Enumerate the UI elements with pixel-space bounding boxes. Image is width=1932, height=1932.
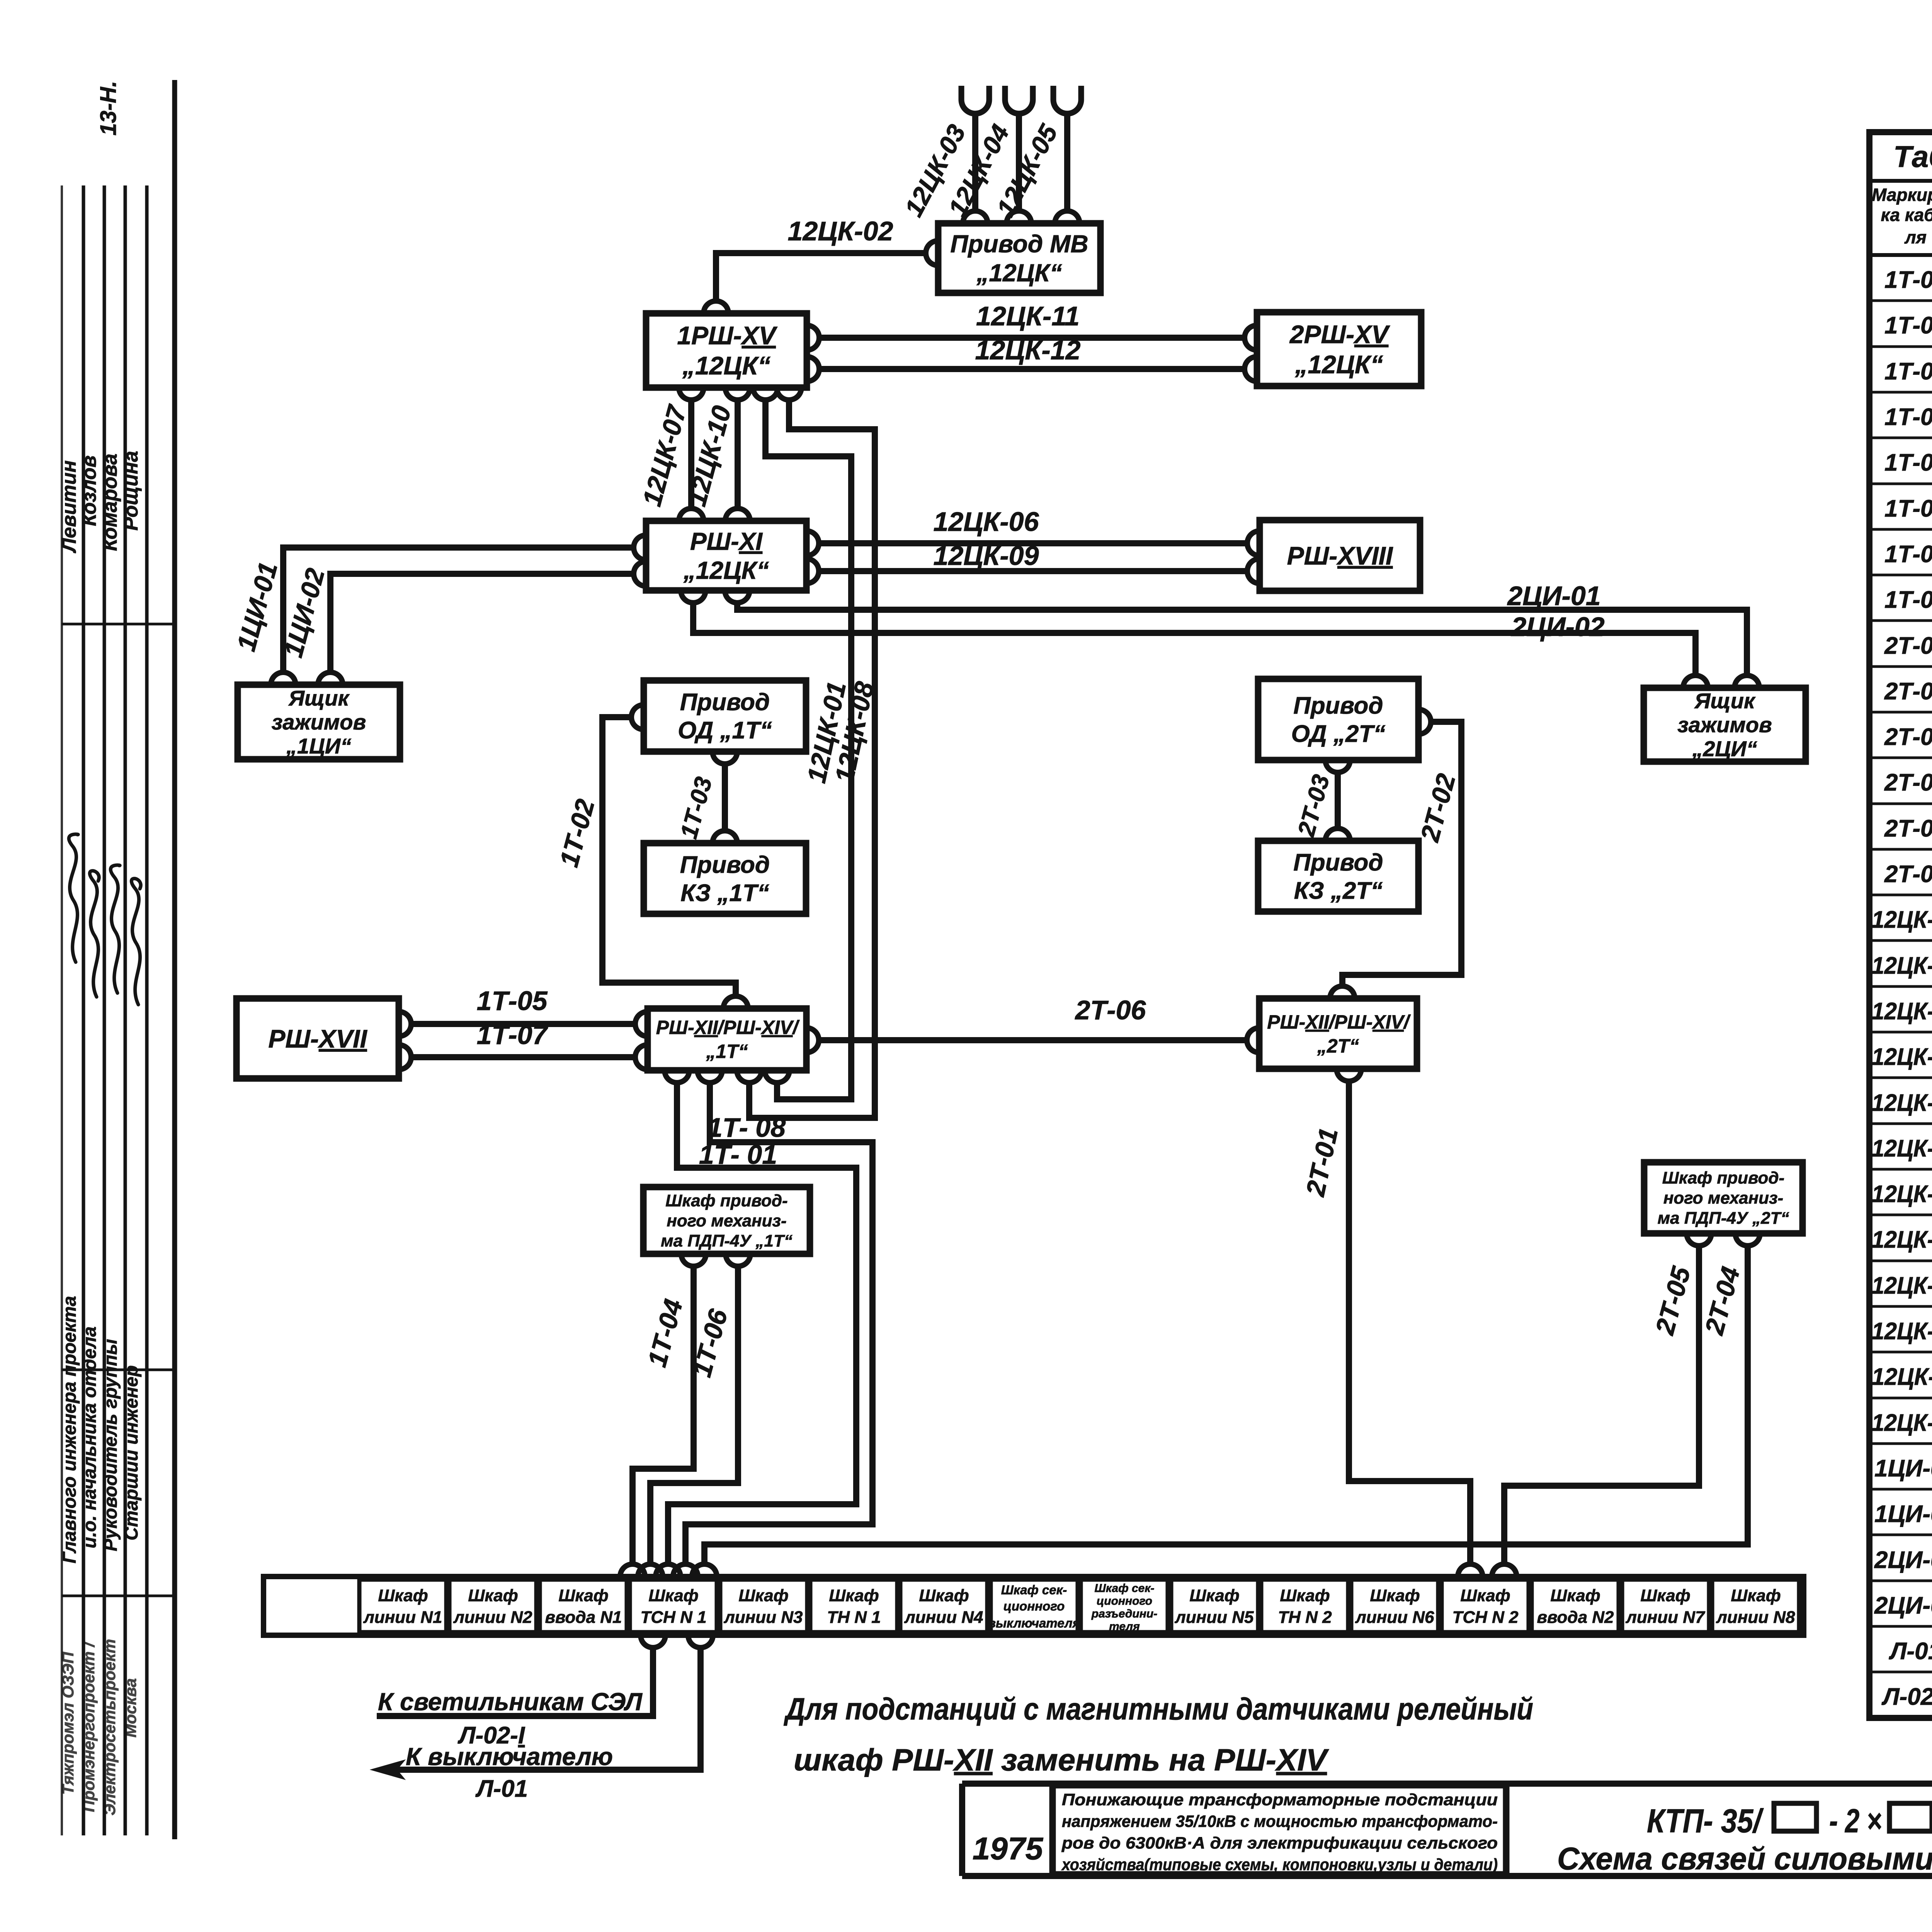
cabinet cell: Шкаф ввода N2: [1532, 1580, 1619, 1632]
cabinet cell: Шкаф линии N8: [1712, 1580, 1799, 1632]
svg-text:„12ЦК“: „12ЦК“: [683, 556, 769, 584]
bump ящик 1ЦИ top-1: [271, 672, 296, 685]
svg-text:2ЦИ-01: 2ЦИ-01: [1874, 1547, 1932, 1573]
svg-text:„12ЦК“: „12ЦК“: [682, 351, 770, 380]
stamp column: organisation stamp (rotated, blurred in scan): [59, 1639, 139, 1815]
cabinet cell: Шкаф линии N6: [1351, 1580, 1438, 1632]
svg-text:12ЦК-02: 12ЦК-02: [1872, 952, 1932, 979]
bump РШ-XI bottom-1: [681, 590, 706, 603]
cable table row 2Т-01: [1884, 633, 1932, 659]
label 1Т-02: [554, 796, 600, 870]
bump Привод ОД 2Т bottom: [1325, 760, 1350, 772]
label 12ЦК-01: [802, 679, 852, 786]
label 2Т-04: [1699, 1264, 1746, 1338]
cabinet cell: Шкаф ТН N 2: [1261, 1580, 1348, 1632]
label 1Т-01: [699, 1139, 777, 1170]
svg-text:КЗ „2Т“: КЗ „2Т“: [1294, 878, 1383, 904]
svg-text:ОД „1Т“: ОД „1Т“: [678, 717, 772, 744]
svg-text:Главного инженера проекта: Главного инженера проекта: [60, 1296, 80, 1563]
svg-text:„2ЦИ“: „2ЦИ“: [1692, 736, 1757, 761]
svg-text:разъедини-: разъедини-: [1091, 1607, 1157, 1620]
wire 12ЦК-06 (РШ-XI to РШ-XVIII): [819, 540, 1247, 546]
svg-text:Для подстанций с магнитными: Для подстанций с магнитными датчиками ре…: [784, 1692, 1533, 1726]
cable table row 2ЦИ-01: [1874, 1547, 1932, 1573]
svg-text:линии N1: линии N1: [363, 1608, 442, 1627]
cable table row 12ЦК-10: [1872, 1318, 1932, 1345]
cabinet cell: Шкаф линии N3: [720, 1580, 807, 1632]
bump Привод МВ top-2: [1007, 211, 1031, 223]
wire 2ЦИ-01 (РШ-XI to ящик зажимов 2ЦИ): [737, 603, 1747, 675]
cabinet row outer bar: [264, 1577, 1804, 1635]
svg-text:Козлов: Козлов: [78, 455, 100, 526]
wire cable stub lead 12ЦК-04: [1016, 116, 1022, 211]
cabinet cell: Шкаф линии N2: [449, 1580, 536, 1632]
svg-text:12ЦК-12: 12ЦК-12: [975, 335, 1080, 365]
label 12ЦК-11: [976, 301, 1080, 331]
bump РШ-XII 2Т left: [1247, 1028, 1259, 1053]
bump РШ-XVIII left-2: [1247, 559, 1260, 583]
svg-text:Шкаф: Шкаф: [558, 1586, 608, 1605]
cable table row 12ЦК-09: [1872, 1272, 1932, 1299]
bump ящик 2ЦИ top-1: [1683, 675, 1708, 688]
svg-text:2ЦИ-02: 2ЦИ-02: [1874, 1592, 1932, 1619]
wire 1Т-08 (РШ-XII „1Т“ to шкаф ТСН N1): [685, 1083, 872, 1564]
box ящик зажимов „1ЦИ“: [238, 685, 400, 759]
svg-text:1Т- 01: 1Т- 01: [699, 1139, 777, 1170]
svg-text:12ЦК-05: 12ЦК-05: [1872, 1090, 1932, 1116]
bump 1РШ-XV right-1: [807, 325, 819, 350]
cable table row 1Т-06: [1884, 495, 1932, 522]
cable table row 12ЦК-02: [1872, 952, 1932, 979]
svg-text:зажимов: зажимов: [272, 710, 366, 734]
svg-text:Руководитель группы: Руководитель группы: [100, 1339, 121, 1551]
wire Л-02-I (шкаф ТСН N1 to светильники СЭЛ): [377, 1648, 653, 1716]
bump шкаф ТСН N1 top-3: [656, 1564, 680, 1577]
svg-text:РШ-ХVII: РШ-ХVII: [268, 1024, 367, 1053]
stamp column horizontal dividers: [62, 624, 175, 1596]
svg-text:ввода N1: ввода N1: [545, 1608, 622, 1627]
bump РШ-XI left-2: [634, 561, 646, 586]
svg-text:РШ-ХII/РШ-ХIV/: РШ-ХII/РШ-ХIV/: [656, 1017, 800, 1038]
svg-text:Понижающие трансформаторные: Понижающие трансформаторные подстанции: [1062, 1791, 1498, 1809]
svg-text:РШ-ХVIII: РШ-ХVIII: [1287, 541, 1393, 570]
svg-text:Шкаф привод-: Шкаф привод-: [1662, 1168, 1784, 1187]
box Привод КЗ „2Т“: [1258, 841, 1418, 912]
box РШ-XVII: [236, 998, 399, 1078]
label Л-02-I: [457, 1722, 526, 1749]
label Л-01: [475, 1776, 528, 1802]
svg-text:Шкаф: Шкаф: [648, 1586, 698, 1605]
svg-text:1Т-05: 1Т-05: [477, 986, 548, 1016]
bump РШ-XVII right-1: [399, 1012, 411, 1036]
label 2Т-01: [1300, 1125, 1344, 1199]
cable table row 1Т-03: [1884, 358, 1932, 385]
note line 2: шкаф РШ-XII заменить на РШ-XIV: [794, 1743, 1329, 1777]
box РШ-XII(РШ-XIV) „2Т“: [1259, 998, 1417, 1069]
svg-text:ного механиз-: ного механиз-: [667, 1211, 786, 1230]
label 12ЦК-07: [637, 401, 692, 509]
box шкаф приводного механизма ПДП-4У „1Т“: [643, 1187, 810, 1254]
svg-text:2Т-05: 2Т-05: [1884, 815, 1932, 842]
svg-text:Привод: Привод: [680, 689, 770, 716]
cable table row 12ЦК-11: [1872, 1364, 1932, 1390]
label 1ЦИ-01: [231, 559, 283, 654]
bump Привод КЗ 2Т top: [1325, 828, 1350, 841]
svg-text:ка кабе-: ка кабе-: [1881, 205, 1932, 225]
svg-text:Левитин: Левитин: [58, 460, 80, 553]
label 1Т-05: [477, 986, 548, 1016]
svg-text:линии N3: линии N3: [723, 1608, 803, 1627]
svg-text:хозяйства(типовые схемы, компо: хозяйства(типовые схемы, компоновки,узлы…: [1061, 1855, 1498, 1874]
cable termination symbol at top of stub x=2637: [1005, 86, 1033, 114]
svg-text:линии N4: линии N4: [904, 1608, 983, 1627]
svg-text:ТН N 2: ТН N 2: [1278, 1608, 1332, 1627]
wire 2Т-06 (РШ-XII „1Т“ to РШ-XII „2Т“): [819, 1037, 1247, 1043]
svg-text:Таблица связей, выполненных: Таблица связей, выполненных силовыми каб…: [1893, 139, 1932, 173]
bump 1РШ-XV bottom-1: [679, 388, 704, 400]
label 2Т-06: [1075, 995, 1146, 1025]
svg-text:Шкаф: Шкаф: [1280, 1586, 1330, 1605]
svg-text:1РШ-ХV: 1РШ-ХV: [677, 321, 777, 350]
bump Привод КЗ 1Т top: [713, 831, 737, 843]
svg-text:ТСН N 1: ТСН N 1: [640, 1608, 706, 1627]
bump 1РШ-XV bottom-2: [725, 388, 750, 400]
label 1Т-06: [687, 1306, 733, 1380]
cable table row 12ЦК-07: [1872, 1181, 1932, 1207]
svg-text:„1ЦИ“: „1ЦИ“: [286, 734, 351, 758]
cabinet cell: Шкаф ТН N 1: [810, 1580, 897, 1632]
svg-text:Шкаф: Шкаф: [1189, 1586, 1239, 1605]
wire cable stub lead 12ЦК-05: [1064, 116, 1070, 211]
cable table row 2ЦИ-02: [1874, 1592, 1932, 1619]
title block: year cell 1975: [973, 1831, 1044, 1866]
bump РШ-XI left-1: [634, 535, 646, 560]
cable table row Л-01: [1889, 1638, 1932, 1665]
svg-text:К светильникам СЭЛ: К светильникам СЭЛ: [378, 1688, 643, 1716]
wire 12ЦК-08 (1РШ-XV to РШ-XII „1Т“): [749, 400, 875, 1118]
cabinet cell: Шкаф ТСН N 2: [1442, 1580, 1529, 1632]
bump Привод ОД 2Т right: [1418, 709, 1431, 734]
label 1ЦИ-02: [279, 565, 330, 660]
label 12ЦК-09: [933, 541, 1039, 571]
svg-text:2Т-04: 2Т-04: [1884, 769, 1932, 796]
bump шкаф ТСН N1 bottom-1: [641, 1635, 665, 1648]
svg-text:1Т- 08: 1Т- 08: [707, 1112, 786, 1143]
svg-text:шкаф РШ-ХII заменить на: шкаф РШ-ХII заменить на РШ-ХIV: [794, 1743, 1329, 1777]
cable table row 1ЦИ-01: [1874, 1455, 1932, 1482]
cable table row 12ЦК-03: [1872, 998, 1932, 1025]
wire 12ЦК-12 (1РШ-XV to 2РШ-XV): [820, 366, 1244, 372]
cable table row 12ЦК-12: [1872, 1410, 1932, 1436]
wire 2Т-02 (Привод ОД 2Т to РШ-XII „2Т“): [1342, 722, 1461, 986]
svg-text:Шкаф: Шкаф: [1640, 1586, 1690, 1605]
bump РШ-XII 2Т bottom: [1337, 1069, 1361, 1081]
svg-text:12ЦК-10: 12ЦК-10: [1872, 1318, 1932, 1345]
svg-text:Промэнергопроект /: Промэнергопроект /: [80, 1641, 98, 1812]
svg-text:1ЦИ-01: 1ЦИ-01: [1874, 1455, 1932, 1482]
wire Л-01 (шкаф ТСН N1 to выключатель): [383, 1648, 701, 1770]
svg-text:„1Т“: „1Т“: [706, 1041, 748, 1062]
svg-text:Шкаф сек-: Шкаф сек-: [1001, 1583, 1067, 1597]
box РШ-XI „12ЦК“: [646, 521, 806, 590]
label 2Т-02: [1415, 770, 1461, 845]
bump РШ-XVII right-2: [399, 1045, 411, 1070]
bump Привод ОД 1Т left: [631, 705, 644, 730]
svg-text:2Т-06: 2Т-06: [1884, 861, 1932, 888]
svg-text:линии N5: линии N5: [1174, 1608, 1254, 1627]
svg-text:выключателя: выключателя: [988, 1616, 1080, 1630]
svg-text:КЗ „1Т“: КЗ „1Т“: [680, 880, 769, 906]
note line 1: Для подстанций с магнитными датчиками релейный: [784, 1692, 1533, 1726]
svg-text:1975: 1975: [973, 1831, 1044, 1866]
svg-text:Шкаф: Шкаф: [919, 1586, 969, 1605]
wire 2Т-05 (шкаф ПДП-4У 2Т to шкаф ТСН N2): [1504, 1246, 1699, 1564]
svg-text:2ЦИ-01: 2ЦИ-01: [1507, 581, 1600, 611]
cable table row 12ЦК-08: [1872, 1226, 1932, 1253]
wire 2Т-04 (шкаф ПДП-4У 2Т to шкаф ТСН N1): [704, 1246, 1748, 1564]
bump ПДП-4У 1Т bottom-1: [681, 1254, 706, 1266]
label 2Т-05: [1650, 1263, 1696, 1338]
svg-text:2ЦИ-02: 2ЦИ-02: [1510, 612, 1605, 642]
label 12ЦК-05: [991, 119, 1063, 221]
svg-text:12ЦК-06: 12ЦК-06: [933, 507, 1039, 537]
bump РШ-XII 1Т top: [723, 996, 748, 1009]
bump шкаф ТСН N2 top-1: [1458, 1564, 1483, 1577]
svg-text:12ЦК-08: 12ЦК-08: [1872, 1226, 1932, 1253]
bump ПДП-4У 2Т bottom-1: [1687, 1233, 1711, 1246]
svg-text:КТП- 35/: КТП- 35/: [1647, 1803, 1764, 1840]
svg-text:Схема связей силовыми кабел: Схема связей силовыми кабелями: [1557, 1841, 1932, 1876]
label 2Т-03: [1293, 772, 1335, 840]
box Привод ОД „2Т“: [1258, 679, 1418, 760]
cable table row 1Т-02: [1884, 312, 1932, 339]
label 1Т-04: [642, 1296, 688, 1370]
svg-text:ввода N2: ввода N2: [1537, 1608, 1614, 1627]
svg-text:12ЦК-04: 12ЦК-04: [1872, 1044, 1932, 1070]
bump РШ-XI right-2: [806, 559, 819, 583]
svg-text:ТСН N 2: ТСН N 2: [1452, 1608, 1519, 1627]
label 12ЦК-12: [975, 335, 1080, 365]
wire 12ЦК-11 (1РШ-XV to 2РШ-XV): [820, 335, 1244, 341]
svg-text:Тяжпромэл ОЗЭП: Тяжпромэл ОЗЭП: [59, 1651, 77, 1795]
bump 2РШ-XV left-1: [1245, 325, 1257, 350]
bump шкаф ТСН N1 top-1: [620, 1564, 645, 1577]
cabinet cell: Шкаф линии N4: [900, 1580, 987, 1632]
wire 1ЦИ-01 (РШ-XI to ящик зажимов 1ЦИ): [283, 548, 633, 672]
stamp column: signatures (rotated script squiggles): [69, 834, 141, 1005]
label 12ЦК-10: [682, 403, 737, 509]
cable table row Л-02-I: [1881, 1684, 1932, 1710]
svg-text:Комарова: Комарова: [99, 454, 121, 551]
title block: drawing name: [1557, 1841, 1932, 1876]
cable table row 1Т-04: [1884, 404, 1932, 430]
wire 1Т-03 (Привод ОД 1Т to Привод КЗ 1Т): [722, 764, 728, 830]
svg-text:1Т-05: 1Т-05: [1884, 449, 1932, 476]
svg-text:Ящик: Ящик: [288, 686, 350, 710]
svg-text:2Т-01: 2Т-01: [1884, 633, 1932, 659]
cabinet cell: Шкаф линии N7: [1622, 1580, 1709, 1632]
bump Привод МВ left: [926, 241, 938, 265]
cable table row 12ЦК-01: [1872, 906, 1932, 933]
svg-text:1Т-02: 1Т-02: [1884, 312, 1932, 339]
bump РШ-XII 1Т right: [806, 1028, 819, 1053]
box РШ-XII(РШ-XIV) „1Т“: [648, 1009, 806, 1070]
bump РШ-XII 1Т bottom-4: [765, 1070, 789, 1083]
bump РШ-XII 1Т left-1: [635, 1012, 648, 1036]
title block: outer frame and cell borders: [962, 1784, 1932, 1876]
cable table row 2Т-02: [1884, 678, 1932, 705]
bump 1РШ-XV right-2: [807, 357, 819, 381]
svg-text:- 2 ×: - 2 ×: [1829, 1803, 1882, 1840]
svg-text:Шкаф сек-: Шкаф сек-: [1094, 1582, 1154, 1595]
svg-text:„12ЦК“: „12ЦК“: [1294, 350, 1383, 379]
svg-text:ля: ля: [1904, 227, 1927, 247]
bump Привод МВ top-3: [1055, 211, 1080, 223]
bump шкаф ТСН N1 top-5: [692, 1564, 717, 1577]
svg-text:12ЦК-07: 12ЦК-07: [1872, 1181, 1932, 1207]
svg-text:Шкаф: Шкаф: [1460, 1586, 1510, 1605]
svg-text:12ЦК-09: 12ЦК-09: [933, 541, 1039, 571]
svg-text:12ЦК-11: 12ЦК-11: [1872, 1364, 1932, 1390]
svg-text:Шкаф: Шкаф: [378, 1586, 428, 1605]
svg-text:Шкаф: Шкаф: [1731, 1586, 1781, 1605]
svg-text:РШ-ХII/РШ-ХIV/: РШ-ХII/РШ-ХIV/: [1267, 1011, 1411, 1033]
svg-text:1Т-03: 1Т-03: [1884, 358, 1932, 385]
svg-text:12ЦК-01: 12ЦК-01: [1872, 906, 1932, 933]
cable table row 1ЦИ-02: [1874, 1501, 1932, 1527]
svg-text:2Т-06: 2Т-06: [1075, 995, 1146, 1025]
svg-text:Шкаф: Шкаф: [1550, 1586, 1600, 1605]
svg-text:Шкаф: Шкаф: [829, 1586, 879, 1605]
label 12ЦК-08: [830, 679, 880, 785]
sheet frame: left stamp column verticals: [62, 80, 175, 1839]
cable table row 1Т-01: [1884, 267, 1932, 293]
svg-text:1Т-01: 1Т-01: [1884, 267, 1932, 293]
cabinet cell: Шкаф линии N5: [1171, 1580, 1258, 1632]
svg-text:теля: теля: [1109, 1620, 1140, 1633]
svg-text:Электросетьпроект: Электросетьпроект: [100, 1639, 119, 1815]
bump 1РШ-XV top: [704, 301, 728, 313]
svg-text:К выключателю: К выключателю: [406, 1743, 613, 1770]
bump Привод ОД 1Т bottom: [713, 752, 737, 764]
svg-text:Москва: Москва: [121, 1678, 139, 1737]
title block: drawing designation КТП-35: [1647, 1803, 1932, 1840]
svg-text:2Т-02: 2Т-02: [1884, 678, 1932, 705]
box шкаф приводного механизма ПДП-4У „2Т“: [1644, 1162, 1803, 1233]
svg-text:„12ЦК“: „12ЦК“: [976, 259, 1062, 287]
bump РШ-XI right-1: [806, 531, 819, 556]
cable table: title: [1893, 139, 1932, 173]
wire 12ЦК-09 (РШ-XI to РШ-XVIII): [819, 568, 1247, 574]
wire 12ЦК-10 (1РШ-XV to РШ-XI): [735, 400, 741, 508]
svg-text:Л-01: Л-01: [1889, 1638, 1932, 1665]
bump РШ-XII 2Т top: [1330, 986, 1355, 998]
box РШ-XVIII: [1260, 520, 1420, 591]
svg-text:12ЦК-03: 12ЦК-03: [1872, 998, 1932, 1025]
bump шкаф ТСН N1 top-4: [673, 1564, 698, 1577]
svg-text:ционного: ционного: [1003, 1599, 1065, 1613]
svg-text:1Т-08: 1Т-08: [1884, 587, 1932, 613]
cable table row 12ЦК-06: [1872, 1135, 1932, 1162]
svg-text:и.о. начальника отдела: и.о. начальника отдела: [80, 1327, 100, 1548]
svg-text:ров до 6300кВ·А для электрифик: ров до 6300кВ·А для электрификации сельс…: [1061, 1834, 1498, 1852]
arrowhead on wire Л-01: [372, 1760, 404, 1779]
box Привод МВ „12ЦК“: [938, 223, 1100, 293]
svg-text:12ЦК-09: 12ЦК-09: [1872, 1272, 1932, 1299]
box 1РШ-XV „12ЦК“: [646, 313, 807, 388]
svg-text:2РШ-ХV: 2РШ-ХV: [1289, 320, 1390, 349]
cable table: column headers: [1872, 185, 1932, 248]
cable table row 1Т-08: [1884, 587, 1932, 613]
svg-text:Привод: Привод: [680, 852, 770, 878]
wire 1Т-07 (РШ-XVII to РШ-XII „1Т“): [412, 1054, 635, 1060]
label К выключателю: [406, 1743, 613, 1770]
wire 1Т-01 (РШ-XII „1Т“ to шкаф ТСН N1): [668, 1083, 856, 1564]
bump РШ-XII 1Т bottom-1: [665, 1070, 689, 1083]
stamp column: job titles (rotated): [60, 1296, 142, 1563]
label 1Т-03: [675, 774, 718, 842]
svg-text:Ящик: Ящик: [1694, 689, 1756, 713]
svg-text:Шкаф: Шкаф: [738, 1586, 788, 1605]
svg-text:линии N2: линии N2: [453, 1608, 532, 1627]
box ящик зажимов „2ЦИ“: [1644, 688, 1806, 762]
label 2ЦИ-01: [1507, 581, 1600, 611]
bump ящик 1ЦИ top-2: [318, 672, 343, 685]
svg-text:Привод: Привод: [1293, 849, 1383, 876]
svg-text:ного механиз-: ного механиз-: [1663, 1189, 1783, 1207]
handwritten sheet number at top of stamp column: [96, 81, 121, 136]
label К светильникам СЭЛ: [378, 1688, 643, 1716]
svg-text:„2Т“: „2Т“: [1317, 1035, 1359, 1057]
svg-text:ТН N 1: ТН N 1: [827, 1608, 881, 1627]
svg-text:12ЦК-02: 12ЦК-02: [787, 216, 893, 246]
bump РШ-XII 1Т bottom-3: [737, 1070, 762, 1083]
svg-text:ОД „2Т“: ОД „2Т“: [1291, 721, 1386, 747]
svg-text:Шкаф привод-: Шкаф привод-: [665, 1191, 787, 1210]
svg-text:линии N8: линии N8: [1716, 1608, 1795, 1627]
cable table row 1Т-07: [1884, 541, 1932, 568]
cable termination symbol at top of stub x=2762: [1053, 86, 1081, 114]
box Привод ОД „1Т“: [644, 680, 806, 752]
label 12ЦК-02: [787, 216, 893, 246]
wire 12ЦК-01 (1РШ-XV to РШ-XII „1Т“): [765, 400, 851, 1099]
svg-text:Привод: Привод: [1293, 692, 1383, 719]
svg-text:Старший инженер: Старший инженер: [121, 1365, 142, 1540]
cable table: outer border and grid: [1869, 132, 1932, 1718]
svg-text:1Т-04: 1Т-04: [1884, 404, 1932, 430]
svg-text:ма ПДП-4У „1Т“: ма ПДП-4У „1Т“: [661, 1231, 793, 1250]
label 12ЦК-06: [933, 507, 1039, 537]
bump РШ-XVIII left-1: [1247, 531, 1260, 556]
bump шкаф ТСН N1 bottom-2: [688, 1635, 713, 1648]
bump ящик 2ЦИ top-2: [1735, 675, 1759, 688]
label 1Т-07: [477, 1020, 549, 1050]
svg-text:Привод МВ: Привод МВ: [950, 230, 1088, 258]
svg-text:Шкаф: Шкаф: [468, 1586, 518, 1605]
bump РШ-XII 1Т left-2: [635, 1045, 648, 1070]
cable table row 2Т-06: [1884, 861, 1932, 888]
box Привод КЗ „1Т“: [644, 843, 806, 914]
wire 1Т-02 (Привод ОД 1Т to РШ-XII „1Т“): [602, 717, 736, 996]
bump РШ-XI bottom-2: [725, 590, 750, 603]
svg-text:линии N6: линии N6: [1355, 1608, 1434, 1627]
bump ПДП-4У 2Т bottom-2: [1735, 1233, 1760, 1246]
label 12ЦК-03: [899, 120, 971, 221]
wire 12ЦК-02 (1РШ-XV top to Привод МВ left): [716, 253, 925, 301]
svg-text:Рощина: Рощина: [120, 451, 142, 531]
wire 2Т-03 (Привод ОД 2Т to Привод КЗ 2Т): [1335, 773, 1341, 828]
cabinet cell: Шкаф линии N1: [359, 1580, 446, 1632]
